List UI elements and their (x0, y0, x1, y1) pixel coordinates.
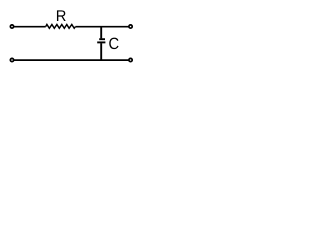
capacitor C top plate (99, 38, 105, 40)
resistor R (46, 24, 76, 28)
terminal input bottom-left (10, 58, 13, 61)
wire top-right segment (75, 26, 128, 28)
svg-text:R: R (56, 8, 67, 25)
capacitor C bottom lead (100, 43, 102, 60)
terminal output bottom-right (129, 58, 132, 61)
terminal output top-right (129, 25, 132, 28)
capacitor C top lead (100, 27, 102, 39)
capacitor C bottom plate (97, 41, 105, 43)
svg-text:C: C (108, 35, 119, 53)
wire bottom (14, 59, 129, 61)
wire top-left segment (14, 26, 46, 28)
terminal input top-left (10, 25, 13, 28)
